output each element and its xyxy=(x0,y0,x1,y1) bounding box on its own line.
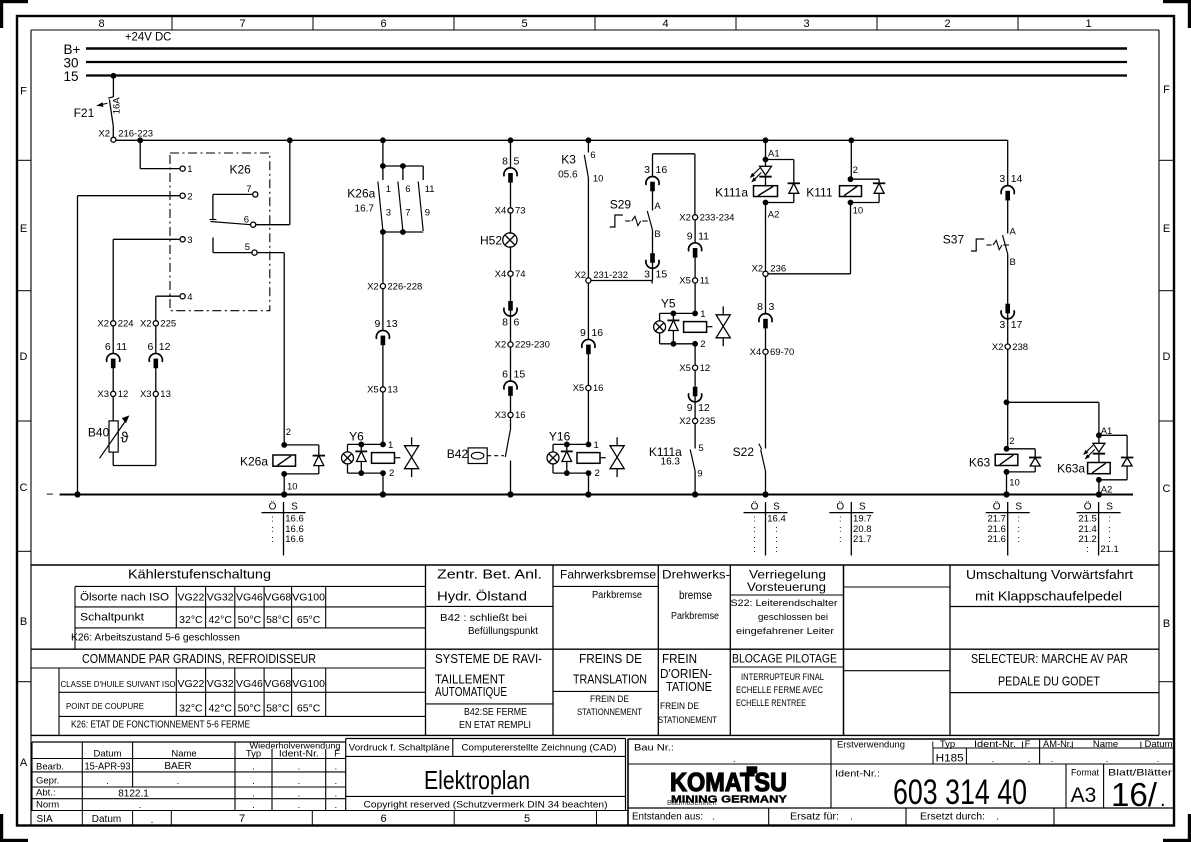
svg-text:.: . xyxy=(252,800,255,811)
svg-text:Drehwerks-: Drehwerks- xyxy=(662,568,730,582)
svg-text:42°C: 42°C xyxy=(208,703,232,715)
svg-text:eingefahrener Leiter: eingefahrener Leiter xyxy=(736,626,834,637)
svg-text:Y16: Y16 xyxy=(549,430,571,444)
svg-text:PEDALE DU GODET: PEDALE DU GODET xyxy=(998,675,1100,689)
svg-text:16A: 16A xyxy=(112,97,123,115)
svg-text:9: 9 xyxy=(687,230,693,242)
svg-text:.: . xyxy=(1106,754,1109,765)
svg-text:SELECTEUR: MARCHE AV PAR: SELECTEUR: MARCHE AV PAR xyxy=(971,652,1128,666)
svg-text:.: . xyxy=(1051,754,1054,765)
svg-text:POINT DE COUPURE: POINT DE COUPURE xyxy=(66,701,144,711)
svg-text:Datum: Datum xyxy=(92,814,121,825)
svg-text:2: 2 xyxy=(853,165,858,176)
svg-text:Norm: Norm xyxy=(36,799,59,810)
svg-text:X2: X2 xyxy=(495,340,507,351)
svg-text:238: 238 xyxy=(1012,342,1028,353)
svg-text:S: S xyxy=(291,501,298,512)
svg-text:32°C: 32°C xyxy=(179,703,203,715)
svg-text:SIA: SIA xyxy=(37,814,53,825)
svg-text:12: 12 xyxy=(698,402,710,414)
svg-text:A: A xyxy=(1010,227,1017,238)
svg-text:16: 16 xyxy=(515,410,526,421)
svg-text:A: A xyxy=(654,201,661,212)
svg-text:Name: Name xyxy=(171,748,196,759)
svg-text:4: 4 xyxy=(662,18,668,30)
svg-text:A3: A3 xyxy=(1071,784,1097,807)
svg-text:10: 10 xyxy=(1009,477,1020,488)
svg-text:11: 11 xyxy=(425,184,435,195)
svg-text:X2: X2 xyxy=(140,319,152,330)
svg-text:EN ETAT REMPLI: EN ETAT REMPLI xyxy=(459,720,531,731)
svg-text::: : xyxy=(1086,544,1089,555)
svg-text:X5: X5 xyxy=(679,276,691,287)
svg-text:8: 8 xyxy=(98,18,104,30)
svg-text:VG46: VG46 xyxy=(236,592,263,604)
svg-text:5: 5 xyxy=(698,443,703,454)
svg-text:X2: X2 xyxy=(574,270,586,281)
svg-text:Typ: Typ xyxy=(940,739,955,750)
svg-text:B40: B40 xyxy=(88,425,110,439)
svg-text:ECHELLE RENTREE: ECHELLE RENTREE xyxy=(736,698,806,709)
svg-text:65°C: 65°C xyxy=(297,703,321,715)
svg-text:.: . xyxy=(298,761,301,772)
svg-text:.: . xyxy=(1160,789,1166,811)
svg-text:Vordruck f. Schaltpläne: Vordruck f. Schaltpläne xyxy=(349,743,450,754)
svg-text:K63a: K63a xyxy=(1057,462,1085,476)
svg-text:11: 11 xyxy=(116,341,127,353)
svg-text:2: 2 xyxy=(944,18,950,30)
svg-text:10: 10 xyxy=(287,481,298,492)
svg-text:225: 225 xyxy=(160,319,176,330)
svg-text:5: 5 xyxy=(514,155,520,167)
svg-text:S: S xyxy=(773,501,780,512)
svg-text:Erstverwendung: Erstverwendung xyxy=(837,739,905,750)
svg-text:16: 16 xyxy=(593,383,604,394)
svg-text:.: . xyxy=(850,812,853,823)
svg-text:Bearb.: Bearb. xyxy=(36,761,64,772)
svg-text:05.6: 05.6 xyxy=(558,169,578,180)
svg-text:231-232: 231-232 xyxy=(593,270,628,281)
svg-text::: : xyxy=(839,534,842,545)
svg-text:14: 14 xyxy=(1011,173,1023,185)
svg-text:9: 9 xyxy=(697,468,702,479)
svg-text:Kählerstufenschaltung: Kählerstufenschaltung xyxy=(128,568,271,582)
svg-text:7: 7 xyxy=(405,208,410,219)
svg-text:6: 6 xyxy=(590,150,595,161)
svg-text:17: 17 xyxy=(1011,319,1023,331)
svg-text:.: . xyxy=(334,789,337,800)
svg-text:Format: Format xyxy=(1071,768,1099,779)
svg-text:S22: S22 xyxy=(733,445,755,459)
svg-text:32°C: 32°C xyxy=(179,614,203,626)
svg-text:5: 5 xyxy=(521,18,527,30)
svg-text:58°C: 58°C xyxy=(266,614,290,626)
svg-text:BLOCAGE PILOTAGE: BLOCAGE PILOTAGE xyxy=(732,652,837,666)
svg-text:Vorsteuerung: Vorsteuerung xyxy=(747,580,826,594)
svg-text:1: 1 xyxy=(594,440,599,451)
svg-text:INTERRUPTEUR FINAL: INTERRUPTEUR FINAL xyxy=(741,672,824,683)
svg-text:X5: X5 xyxy=(679,363,691,374)
svg-text:F: F xyxy=(20,86,27,98)
svg-text:K26a: K26a xyxy=(240,454,268,468)
svg-text:21.7: 21.7 xyxy=(853,534,872,545)
svg-text:Fahrwerksbremse: Fahrwerksbremse xyxy=(560,568,656,582)
svg-text:16.3: 16.3 xyxy=(661,456,681,467)
svg-text:S: S xyxy=(1106,501,1113,512)
svg-text:Bau Nr.:: Bau Nr.: xyxy=(634,743,674,754)
svg-text:K111a: K111a xyxy=(715,185,748,199)
svg-text:73: 73 xyxy=(515,206,526,217)
svg-text:S: S xyxy=(859,501,866,512)
svg-text:6: 6 xyxy=(405,184,410,195)
svg-text:X3: X3 xyxy=(140,389,152,400)
svg-text:3: 3 xyxy=(187,235,192,246)
svg-text:3: 3 xyxy=(803,18,809,30)
svg-text:12: 12 xyxy=(700,363,711,374)
svg-text:F: F xyxy=(1163,84,1170,96)
svg-text:6: 6 xyxy=(514,316,520,328)
svg-text:2: 2 xyxy=(187,191,192,202)
svg-text:15: 15 xyxy=(656,269,668,281)
svg-text::: : xyxy=(753,544,756,555)
svg-text:3: 3 xyxy=(644,269,650,281)
svg-text:Parkbremse: Parkbremse xyxy=(592,590,642,601)
svg-text:15: 15 xyxy=(514,369,526,381)
svg-text:bremse: bremse xyxy=(679,588,712,602)
svg-text:−: − xyxy=(46,486,54,501)
svg-text:6: 6 xyxy=(380,813,386,825)
svg-text:2: 2 xyxy=(286,427,291,438)
svg-text:B: B xyxy=(1010,257,1016,268)
svg-text:K3: K3 xyxy=(561,153,576,167)
svg-text:FREIN DE: FREIN DE xyxy=(590,694,629,705)
svg-text:TATIONE: TATIONE xyxy=(666,679,712,694)
svg-text:3: 3 xyxy=(386,208,391,219)
svg-text:B42 : schließt bei: B42 : schließt bei xyxy=(440,613,527,624)
svg-text:236: 236 xyxy=(770,264,786,275)
svg-text:F: F xyxy=(1025,739,1031,750)
svg-text:1: 1 xyxy=(1085,18,1091,30)
svg-text:Datum: Datum xyxy=(1145,739,1173,750)
svg-text:AUTOMATIQUE: AUTOMATIQUE xyxy=(435,684,507,699)
svg-text:X5: X5 xyxy=(573,383,585,394)
svg-text:.: . xyxy=(712,812,715,823)
svg-text:.: . xyxy=(298,800,301,811)
svg-text:10: 10 xyxy=(853,205,864,216)
svg-text:Elektroplan: Elektroplan xyxy=(424,765,530,795)
svg-text:B42:SE FERME: B42:SE FERME xyxy=(464,707,527,718)
svg-text:3: 3 xyxy=(769,301,775,313)
svg-text:12: 12 xyxy=(118,389,129,400)
svg-text:geschlossen bei: geschlossen bei xyxy=(758,612,828,623)
svg-text:2: 2 xyxy=(1009,436,1014,447)
svg-text:Zentr. Bet. Anl.: Zentr. Bet. Anl. xyxy=(437,567,542,582)
svg-text:50°C: 50°C xyxy=(238,703,262,715)
svg-text:MINING GERMANY: MINING GERMANY xyxy=(671,793,787,805)
svg-text:9: 9 xyxy=(687,402,693,414)
svg-text:1: 1 xyxy=(187,164,192,175)
svg-text:8: 8 xyxy=(757,301,763,313)
svg-text:X2: X2 xyxy=(679,213,691,224)
svg-text:4: 4 xyxy=(187,292,192,303)
svg-text:8: 8 xyxy=(502,316,508,328)
svg-text:.: . xyxy=(298,789,301,800)
svg-text:233-234: 233-234 xyxy=(700,213,735,224)
svg-text:K26: K26 xyxy=(230,162,252,176)
svg-text:2: 2 xyxy=(700,339,705,350)
svg-text:BAER: BAER xyxy=(164,761,191,772)
svg-text:D: D xyxy=(1163,351,1171,363)
svg-text:B42: B42 xyxy=(447,447,469,461)
svg-text:.: . xyxy=(334,761,337,772)
svg-text:VG32: VG32 xyxy=(207,592,234,604)
svg-text:15: 15 xyxy=(64,69,79,84)
svg-text:.: . xyxy=(1157,754,1160,765)
svg-text:Copyright reserved (Schutzverm: Copyright reserved (Schutzvermerk DIN 34… xyxy=(364,800,608,811)
svg-text:STATIONNEMENT: STATIONNEMENT xyxy=(577,707,642,718)
svg-text:F: F xyxy=(334,748,340,759)
svg-text:VG32: VG32 xyxy=(207,678,234,690)
svg-text:Y5: Y5 xyxy=(661,297,676,311)
svg-text:5: 5 xyxy=(524,813,530,825)
svg-text:Y6: Y6 xyxy=(349,430,364,444)
svg-text:Typ: Typ xyxy=(246,748,261,759)
svg-text:Ident-Nr.: Ident-Nr. xyxy=(974,739,1016,750)
svg-text:X3: X3 xyxy=(495,410,507,421)
svg-text:E: E xyxy=(1163,223,1170,235)
svg-text:.: . xyxy=(252,776,255,787)
svg-text:K111: K111 xyxy=(806,186,833,200)
svg-text:ÄM-Nr.: ÄM-Nr. xyxy=(1043,739,1072,750)
svg-text:VG46: VG46 xyxy=(236,678,263,690)
svg-text:8122.1: 8122.1 xyxy=(118,789,149,800)
svg-text:13: 13 xyxy=(387,385,398,396)
svg-text:SYSTEME DE RAVI-: SYSTEME DE RAVI- xyxy=(435,651,542,666)
svg-text:A: A xyxy=(20,757,28,769)
svg-text:C: C xyxy=(1163,483,1171,495)
svg-text:FREINS DE: FREINS DE xyxy=(579,651,642,666)
svg-text:65°C: 65°C xyxy=(297,614,321,626)
svg-text:Hydr. Ölstand: Hydr. Ölstand xyxy=(437,589,527,604)
svg-text:D: D xyxy=(20,351,28,363)
svg-text:A2: A2 xyxy=(768,209,780,220)
svg-text:X4: X4 xyxy=(495,269,507,280)
svg-text:7: 7 xyxy=(246,184,251,195)
svg-text::: : xyxy=(775,544,778,555)
svg-text:3: 3 xyxy=(644,164,650,176)
svg-text:15-APR-93: 15-APR-93 xyxy=(85,762,131,773)
svg-text:3: 3 xyxy=(999,173,1005,185)
svg-text:21.6: 21.6 xyxy=(987,534,1006,545)
svg-text:A1: A1 xyxy=(768,149,780,160)
svg-text:7: 7 xyxy=(239,18,245,30)
svg-text:6: 6 xyxy=(105,341,111,353)
svg-text:VG68: VG68 xyxy=(264,592,291,604)
svg-text:13: 13 xyxy=(386,318,398,330)
svg-text:226-228: 226-228 xyxy=(387,281,422,292)
svg-text:+24V DC: +24V DC xyxy=(125,32,171,44)
svg-text:2: 2 xyxy=(595,468,600,479)
svg-text:X2: X2 xyxy=(992,342,1004,353)
svg-text:16.6: 16.6 xyxy=(285,534,304,545)
svg-text:6: 6 xyxy=(380,18,386,30)
svg-text:.: . xyxy=(151,815,154,826)
svg-text:COMMANDE PAR GRADINS, REFROIDI: COMMANDE PAR GRADINS, REFROIDISSEUR xyxy=(82,652,316,666)
svg-text:VG100: VG100 xyxy=(292,592,325,604)
svg-text:5: 5 xyxy=(245,242,250,253)
svg-text:B: B xyxy=(20,616,27,628)
svg-text:11: 11 xyxy=(700,276,710,287)
svg-text:.: . xyxy=(334,800,337,811)
svg-text:H52: H52 xyxy=(480,233,502,247)
svg-text:Gepr.: Gepr. xyxy=(36,775,59,786)
svg-text:S22: Leiterendschalter: S22: Leiterendschalter xyxy=(731,598,838,609)
svg-text:3: 3 xyxy=(999,319,1005,331)
svg-text:VG100: VG100 xyxy=(292,678,325,690)
svg-text:STATIONEMENT: STATIONEMENT xyxy=(658,715,717,726)
svg-text:S37: S37 xyxy=(943,233,965,247)
svg-text:1: 1 xyxy=(386,184,391,195)
svg-text:16: 16 xyxy=(591,327,603,339)
svg-text:229-230: 229-230 xyxy=(515,340,550,351)
svg-text:ECHELLE FERME AVEC: ECHELLE FERME AVEC xyxy=(736,685,823,696)
svg-text:TRANSLATION: TRANSLATION xyxy=(573,672,647,687)
svg-text:7: 7 xyxy=(239,813,245,825)
svg-text:S29: S29 xyxy=(610,198,632,212)
svg-text:6: 6 xyxy=(244,214,249,225)
svg-text:S: S xyxy=(1015,501,1022,512)
svg-text:.: . xyxy=(252,789,255,800)
svg-text:CLASSE D'HUILE SUIVANT ISO: CLASSE D'HUILE SUIVANT ISO xyxy=(61,679,176,689)
svg-text:K26: ETAT DE FONCTIONNEMENT 5-: K26: ETAT DE FONCTIONNEMENT 5-6 FERME xyxy=(71,720,250,731)
svg-text:Befüllungspunkt: Befüllungspunkt xyxy=(468,626,538,637)
svg-text:Entstanden aus:: Entstanden aus: xyxy=(632,812,703,823)
svg-text:16: 16 xyxy=(656,164,668,176)
svg-text:.: . xyxy=(252,761,255,772)
svg-text:21.1: 21.1 xyxy=(1100,544,1119,555)
svg-text:B: B xyxy=(654,229,660,240)
svg-text:74: 74 xyxy=(515,269,526,280)
svg-text:Ö: Ö xyxy=(751,500,759,512)
svg-text:.: . xyxy=(733,754,736,765)
svg-text:Ident-Nr.:: Ident-Nr.: xyxy=(835,769,880,780)
svg-text:B: B xyxy=(1163,618,1170,630)
svg-text:.: . xyxy=(177,776,180,787)
svg-text:216-223: 216-223 xyxy=(118,129,153,140)
svg-text:58°C: 58°C xyxy=(266,703,290,715)
svg-text:.: . xyxy=(996,812,999,823)
svg-text:X5: X5 xyxy=(367,385,379,396)
svg-text:.: . xyxy=(992,754,995,765)
svg-text:69-70: 69-70 xyxy=(770,347,794,358)
svg-text:13: 13 xyxy=(160,389,171,400)
svg-text:X2: X2 xyxy=(98,129,110,140)
svg-text:X2: X2 xyxy=(679,416,691,427)
svg-text:Ö: Ö xyxy=(1084,500,1092,512)
svg-text:Ö: Ö xyxy=(836,500,844,512)
svg-text:.: . xyxy=(106,776,109,787)
svg-text:10: 10 xyxy=(593,174,604,185)
svg-text:9: 9 xyxy=(375,318,381,330)
svg-text:H185: H185 xyxy=(936,752,964,764)
svg-text:F21: F21 xyxy=(74,106,95,120)
svg-text::: : xyxy=(1017,534,1020,545)
svg-text:K26a: K26a xyxy=(347,186,375,200)
svg-text:11: 11 xyxy=(698,230,709,242)
svg-text:VG68: VG68 xyxy=(264,678,291,690)
svg-text:VG22: VG22 xyxy=(177,678,204,690)
svg-text:.: . xyxy=(334,776,337,787)
svg-text:K26: Arbeitszustand 5-6 geschl: K26: Arbeitszustand 5-6 geschlossen xyxy=(71,632,240,643)
svg-text::: : xyxy=(271,534,274,545)
svg-text:C: C xyxy=(20,482,28,494)
svg-text:X2: X2 xyxy=(97,319,109,330)
svg-text:X2: X2 xyxy=(752,264,764,275)
svg-text:12: 12 xyxy=(159,341,171,353)
svg-text:235: 235 xyxy=(700,416,716,427)
svg-text:1: 1 xyxy=(388,440,393,451)
svg-text:Ö: Ö xyxy=(993,500,1001,512)
svg-text:FREIN: FREIN xyxy=(662,651,697,666)
svg-text:Computererstellte Zeichnung (C: Computererstellte Zeichnung (CAD) xyxy=(462,743,617,754)
svg-text:Abt.:: Abt.: xyxy=(36,788,56,799)
svg-text:1: 1 xyxy=(700,309,705,320)
svg-text:K63: K63 xyxy=(969,455,991,469)
svg-text:Datum: Datum xyxy=(94,748,122,759)
svg-text:Name: Name xyxy=(1093,739,1118,750)
svg-text:9: 9 xyxy=(580,327,586,339)
svg-text:Umschaltung Vorwärtsfahrt: Umschaltung Vorwärtsfahrt xyxy=(966,568,1134,582)
svg-text:.: . xyxy=(139,800,142,811)
svg-text:6: 6 xyxy=(502,369,508,381)
svg-text:16/: 16/ xyxy=(1111,776,1158,813)
svg-text:.: . xyxy=(1028,754,1031,765)
svg-text:Parkbremse: Parkbremse xyxy=(671,611,719,622)
svg-text:Ident-Nr.: Ident-Nr. xyxy=(279,748,319,759)
svg-text:2: 2 xyxy=(389,468,394,479)
svg-text:8: 8 xyxy=(502,155,508,167)
svg-text:6: 6 xyxy=(147,341,153,353)
svg-text:Ö: Ö xyxy=(269,500,277,512)
svg-text:ϑ: ϑ xyxy=(121,431,129,447)
svg-text:E: E xyxy=(20,223,27,235)
svg-text:X2: X2 xyxy=(367,281,379,292)
svg-text:224: 224 xyxy=(118,319,134,330)
svg-text:603 314 40: 603 314 40 xyxy=(893,773,1027,812)
svg-text:X4: X4 xyxy=(495,206,507,217)
svg-text:Ersatz für:: Ersatz für: xyxy=(790,812,839,823)
svg-text:Ölsorte nach ISO: Ölsorte nach ISO xyxy=(80,592,169,604)
svg-text:.: . xyxy=(298,776,301,787)
svg-text:X4: X4 xyxy=(750,347,762,358)
svg-text:VG22: VG22 xyxy=(177,592,204,604)
svg-text:16.7: 16.7 xyxy=(355,203,375,214)
svg-text:Ersetzt durch:: Ersetzt durch: xyxy=(920,812,985,823)
svg-text:mit Klappschaufelpedel: mit Klappschaufelpedel xyxy=(975,590,1122,604)
svg-text:50°C: 50°C xyxy=(238,614,262,626)
svg-text:FREIN DE: FREIN DE xyxy=(660,701,699,712)
svg-text:42°C: 42°C xyxy=(208,614,232,626)
svg-text:9: 9 xyxy=(425,208,430,219)
svg-text:X3: X3 xyxy=(97,389,109,400)
svg-text:Schaltpunkt: Schaltpunkt xyxy=(80,612,144,624)
